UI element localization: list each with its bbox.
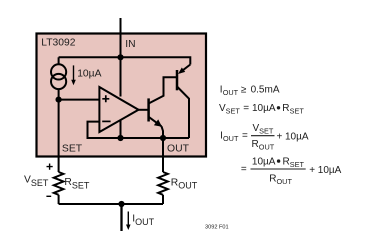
- svg-text:OUT: OUT: [223, 88, 239, 97]
- svg-text:R: R: [283, 157, 290, 168]
- svg-text:OUT: OUT: [223, 134, 239, 143]
- resistor RSET: [54, 172, 64, 204]
- op-amp U1 (error amplifier): [99, 87, 138, 132]
- svg-text:10µA: 10µA: [318, 165, 342, 176]
- equation 4: = 10µA•RSET/ROUT + 10µA: [241, 157, 342, 187]
- node junction on IN rail: [117, 54, 123, 60]
- plus polarity mark: [47, 164, 53, 170]
- svg-text:=: =: [242, 130, 248, 141]
- wire load output downward: [120, 204, 122, 231]
- svg-text:SET: SET: [290, 107, 305, 116]
- current source I1 10µA (two circles): [51, 57, 66, 99]
- svg-text:SET: SET: [226, 107, 241, 116]
- wire SET pin down to RSET: [58, 100, 60, 172]
- transistor Q2 PNP base bar: [176, 70, 179, 90]
- svg-text:+: +: [277, 131, 283, 142]
- svg-text:R: R: [252, 139, 259, 150]
- wire op-amp negative supply to OUT rail: [120, 121, 122, 139]
- annotation arrow IOUT current direction: [126, 212, 131, 231]
- minus polarity mark: [46, 195, 51, 197]
- svg-text:VSET: VSET: [24, 175, 49, 188]
- node junction Q1 emitter on OUT rail: [160, 135, 166, 141]
- svg-text:OUT: OUT: [167, 144, 190, 155]
- svg-text:IN: IN: [125, 39, 135, 50]
- svg-text:10µA: 10µA: [252, 103, 276, 114]
- wire op-amp output to Q1 base: [139, 109, 149, 111]
- svg-text:ROUT: ROUT: [171, 177, 198, 190]
- svg-text:10µA: 10µA: [77, 68, 101, 79]
- svg-text:LT3092: LT3092: [41, 37, 75, 48]
- svg-text:IOUT: IOUT: [132, 213, 154, 226]
- svg-text:SET: SET: [62, 144, 83, 155]
- node junction output current: [118, 201, 124, 207]
- equation 3: IOUT = VSET/ROUT + 10µA: [220, 123, 309, 151]
- equation 1: IOUT >= 0.5mA: [220, 85, 280, 97]
- op-amp − symbol: [102, 120, 110, 122]
- svg-text:R: R: [269, 174, 276, 185]
- svg-text:10µA: 10µA: [252, 157, 276, 168]
- svg-text:10µA: 10µA: [285, 131, 309, 142]
- svg-text:SET: SET: [259, 127, 274, 136]
- svg-text:+: +: [309, 165, 315, 176]
- svg-text:RSET: RSET: [64, 177, 89, 190]
- annotation arrow 10µA current direction: [71, 65, 76, 85]
- svg-text:R: R: [282, 103, 289, 114]
- node junction op-amp V- on OUT rail: [117, 135, 123, 141]
- node junction at SET / op-amp + input: [56, 97, 62, 103]
- op-amp + symbol: [102, 95, 109, 102]
- wire bottom rail RSET to ROUT: [59, 203, 163, 205]
- IC block LT3092 (shaded body): [37, 34, 207, 157]
- svg-text:0.5mA: 0.5mA: [251, 85, 280, 96]
- transistor Q1 NPN base bar: [147, 98, 150, 121]
- wire op-amp inverting input feedback: [88, 122, 190, 138]
- svg-text:SET: SET: [290, 160, 305, 169]
- wire IN pin vertical (top lead into op-amp V+): [120, 18, 122, 97]
- svg-text:OUT: OUT: [259, 143, 275, 152]
- wire OUT pin down to ROUT: [162, 138, 164, 172]
- transistor Q1 emitter with arrow: [149, 117, 163, 138]
- transistor Q1 collector to Q2 base: [149, 77, 177, 103]
- svg-text:=: =: [243, 103, 249, 114]
- svg-text:OUT: OUT: [277, 177, 293, 186]
- resistor ROUT: [158, 172, 168, 204]
- svg-text:3092 F01: 3092 F01: [205, 225, 229, 231]
- wire op-amp non-inverting input: [59, 99, 100, 101]
- svg-text:≥: ≥: [241, 85, 247, 96]
- transistor Q2 emitter with arrow (from IN rail): [178, 65, 190, 75]
- equation 2: VSET = 10µA • RSET: [219, 103, 304, 115]
- svg-text:=: =: [241, 164, 247, 175]
- wire top rail from current source to PNP emitter corner: [59, 57, 191, 64]
- transistor Q2 collector to OUT rail: [177, 87, 189, 139]
